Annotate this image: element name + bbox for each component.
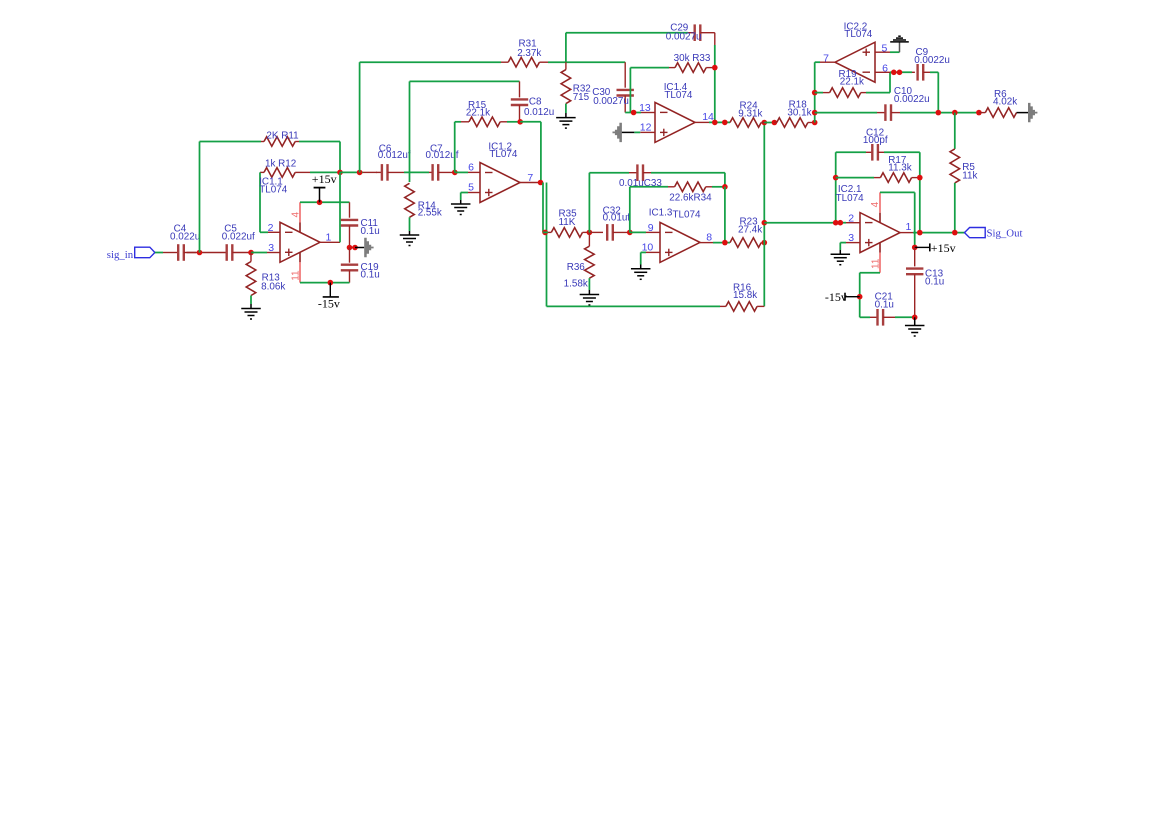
capacitor C33 feedback	[589, 172, 629, 174]
junction R24/R18 b	[772, 120, 778, 126]
svg-text:13: 13	[639, 102, 651, 114]
junction node F (R36/C33 tap)	[587, 230, 593, 236]
svg-text:+15v: +15v	[931, 241, 956, 255]
svg-text:11: 11	[291, 270, 302, 281]
ground below R14	[409, 231, 411, 235]
svg-text:4.02k: 4.02k	[993, 96, 1017, 107]
resistor R11 (2K) feedback	[200, 141, 262, 143]
wire R34 left down to node G	[629, 187, 631, 233]
svg-text:11: 11	[870, 258, 881, 269]
capacitor C9	[912, 71, 915, 73]
capacitor C30	[624, 62, 626, 87]
wire C6 to C7 across R14 tap	[404, 171, 429, 173]
wire R12 left down to pin 2 of IC1.1	[259, 172, 261, 232]
junction node D (R31 tap)	[357, 170, 363, 176]
wire node A up to R11	[199, 142, 201, 253]
svg-text:-15v: -15v	[318, 296, 340, 310]
junction pin 13	[631, 110, 637, 116]
op-amp IC1.2 TL074	[480, 163, 520, 203]
op-amp IC2.1 TL074	[860, 213, 900, 253]
resistor R6	[979, 112, 985, 114]
pin 4 power stub IC1.1	[299, 223, 301, 233]
pin 6 wire IC2.2	[875, 71, 890, 73]
resistor R34 feedback	[630, 186, 668, 188]
junction R35 line left	[542, 230, 548, 236]
wire node D up to R31	[359, 62, 361, 172]
junction pin 14	[712, 120, 718, 126]
resistor R14	[405, 183, 415, 217]
long vertical node H (R23/R16/pin2/R24-R18)	[763, 123, 765, 307]
+15v supply rail wire	[300, 201, 350, 203]
ground below pin 10 IC1.3	[640, 265, 642, 269]
junction output feedback	[917, 230, 923, 236]
svg-text:27.4k: 27.4k	[738, 225, 762, 236]
wire R15 left down to node E	[454, 122, 456, 173]
junction node G (R34 tap)	[627, 230, 633, 236]
wire C12 left down to pin 2 node	[835, 152, 837, 222]
resistor R13	[250, 253, 252, 262]
svg-text:0.1u: 0.1u	[925, 276, 944, 287]
junction R33/C29 vertical	[712, 65, 718, 71]
wire pin 13 line	[625, 112, 641, 114]
junction node C (R11/R12/output)	[337, 170, 343, 176]
svg-text:sig_in: sig_in	[107, 249, 134, 261]
wire node G to pin 9 of IC1.3	[630, 231, 646, 233]
ground below R32	[565, 113, 567, 118]
svg-text:2.37k: 2.37k	[517, 48, 541, 59]
main wire node C to C6	[340, 171, 363, 173]
ground below R36	[588, 290, 590, 295]
junction dots at C11/C19 node	[347, 245, 353, 251]
wire down to pin 8 line	[724, 187, 726, 243]
svg-text:3: 3	[268, 242, 274, 254]
wire C9 right down to C10 line	[937, 72, 939, 112]
svg-text:100pf: 100pf	[863, 135, 888, 146]
op-amp IC1.3 TL074	[660, 222, 700, 262]
-15v supply rail wire	[300, 282, 350, 284]
capacitor C19	[349, 248, 351, 263]
capacitor C12 line	[836, 151, 866, 153]
pin 11 power stub IC1.1	[299, 252, 301, 262]
output port Sig_Out	[965, 228, 986, 238]
svg-text:8: 8	[706, 231, 712, 243]
svg-text:4: 4	[870, 201, 881, 207]
junction pin 7 node	[538, 180, 544, 186]
svg-text:6: 6	[468, 161, 474, 173]
wire node E to pin 6 of IC1.2	[455, 171, 468, 173]
junction node E (R15 tap / pin 6)	[452, 170, 458, 176]
junction before R6	[976, 110, 982, 116]
svg-text:TL074: TL074	[664, 90, 693, 101]
svg-text:11K: 11K	[559, 217, 576, 228]
resistor R5	[954, 113, 956, 149]
op-amp IC1.1 TL074	[280, 222, 320, 262]
pin 3 wire to ground	[846, 242, 860, 244]
svg-text:22.1k: 22.1k	[466, 107, 490, 118]
wire C8 top line	[410, 80, 520, 82]
capacitor C8	[519, 81, 521, 97]
junction C13/C21 ground	[912, 315, 918, 321]
svg-text:0.012uf: 0.012uf	[426, 150, 459, 161]
resistor R17 feedback	[836, 177, 874, 179]
wire C12 right down to output	[919, 152, 921, 232]
svg-text:TL074: TL074	[259, 185, 288, 196]
vertical IC2.2 output net	[814, 62, 816, 122]
svg-text:8.06k: 8.06k	[261, 282, 285, 293]
IC1.2 output pin 7 wire	[520, 182, 543, 184]
junction node A	[197, 250, 203, 256]
wire node B to pin 3 of IC1.1	[251, 252, 267, 254]
capacitor C12	[872, 144, 878, 161]
resistor R18	[774, 122, 776, 124]
svg-text:12: 12	[640, 121, 652, 133]
junction pin 2 dots	[833, 220, 839, 226]
resistor R15 feedback	[455, 121, 461, 123]
wire pin 11 to C21	[860, 272, 880, 274]
svg-text:1: 1	[906, 221, 912, 233]
svg-text:Sig_Out: Sig_Out	[987, 227, 1023, 239]
svg-text:15.8k: 15.8k	[733, 290, 757, 301]
svg-text:0.012u: 0.012u	[524, 107, 554, 118]
svg-text:R36: R36	[567, 262, 586, 273]
IC1.3 output pin 8 wire	[700, 242, 713, 244]
svg-text:TL074: TL074	[836, 193, 865, 204]
capacitor C13	[914, 247, 916, 266]
+15v supply symbol right	[912, 245, 918, 251]
capacitor C10 line	[815, 112, 877, 114]
svg-text:0.01uf: 0.01uf	[603, 213, 631, 224]
svg-text:1k R12: 1k R12	[265, 158, 296, 169]
svg-text:IC1.3: IC1.3	[649, 208, 673, 219]
capacitor C10	[885, 104, 891, 121]
svg-text:-15v: -15v	[825, 290, 847, 304]
svg-text:715: 715	[573, 92, 590, 103]
junction R19 left	[812, 90, 818, 96]
wire R14 vertical from C8 line down through main line	[409, 81, 411, 182]
pin 4 power stub IC2.1	[879, 213, 881, 223]
op-amp IC1.4 TL074	[655, 102, 695, 142]
resistor R12 (1k)	[260, 171, 264, 173]
junction pin 6 dots	[891, 70, 897, 76]
svg-text:0.0022u: 0.0022u	[894, 94, 930, 105]
junction R15/C8	[517, 119, 523, 125]
svg-text:0.1u: 0.1u	[361, 226, 380, 237]
svg-text:TL074: TL074	[844, 29, 873, 40]
junction pin 14 b	[722, 120, 728, 126]
capacitor C29 line	[566, 32, 688, 34]
svg-text:22.6kR34: 22.6kR34	[669, 192, 712, 203]
wire pin 4 to +15v	[880, 191, 915, 193]
capacitor C5	[227, 244, 233, 261]
svg-text:0.1u: 0.1u	[361, 269, 380, 280]
resistor R31	[360, 61, 501, 63]
op-amp IC2.2 TL074 (mirrored)	[835, 42, 875, 82]
resistor R32	[565, 62, 567, 69]
junction C9 branch	[936, 110, 942, 116]
svg-text:11k: 11k	[962, 170, 977, 181]
capacitor C32	[589, 231, 603, 233]
svg-text:11.3k: 11.3k	[888, 162, 911, 173]
analog ground arrow (C11/C19 node)	[355, 247, 364, 249]
junction pin8/R34	[722, 240, 728, 246]
resistor R35	[543, 231, 548, 233]
svg-text:9: 9	[648, 222, 654, 234]
svg-text:0.0027u: 0.0027u	[593, 96, 629, 107]
resistor R23	[730, 238, 761, 248]
analog ground arrow after R6	[1017, 112, 1029, 114]
pin 11 power stub IC2.1	[879, 243, 881, 253]
capacitor C29	[695, 24, 701, 41]
capacitor C21	[878, 309, 884, 326]
junction R18 right	[812, 120, 818, 126]
capacitor C6	[376, 171, 382, 173]
junction pin2 line	[762, 220, 768, 226]
wire node F up to C33 line	[588, 173, 590, 233]
wire R19 right up to pin 6	[889, 72, 891, 92]
svg-text:5: 5	[468, 182, 474, 194]
junction C10 line left	[812, 110, 818, 116]
resistor R19 feedback	[815, 92, 823, 94]
capacitor C7	[429, 171, 433, 173]
inverted earth ground above pin 5	[899, 42, 901, 52]
svg-text:0.012uf: 0.012uf	[378, 150, 411, 161]
ground below pin 5 IC1.2	[460, 200, 462, 204]
svg-text:TL074: TL074	[673, 209, 702, 220]
svg-text:C8: C8	[529, 96, 542, 107]
wire C4 to C5, node A	[187, 252, 227, 254]
wire sig_in to C4	[155, 252, 163, 254]
resistor R24	[730, 118, 761, 128]
svg-text:14: 14	[702, 111, 714, 123]
svg-text:2.55k: 2.55k	[418, 208, 442, 219]
-15v supply symbol right	[857, 294, 863, 300]
svg-text:0.1u: 0.1u	[875, 300, 894, 311]
pin 5 wire to inverted ground	[875, 51, 890, 53]
svg-text:22.1k: 22.1k	[840, 77, 864, 88]
svg-text:0.0027u: 0.0027u	[666, 31, 702, 42]
svg-text:2K R11: 2K R11	[266, 130, 299, 141]
svg-text:30k R33: 30k R33	[674, 53, 711, 64]
wire R15/C8 junction to pin 7 node	[520, 121, 541, 123]
input port sig_in	[135, 247, 155, 258]
capacitor C21 line	[860, 316, 870, 318]
wire R31 right to C30 corner	[566, 61, 625, 63]
svg-text:2: 2	[848, 212, 854, 224]
wire C29 branch up	[565, 33, 567, 63]
pin 10 wire to ground	[646, 251, 660, 253]
ground below R13	[250, 304, 252, 309]
analog ground arrow at pin 12	[613, 123, 622, 142]
svg-text:4: 4	[291, 212, 302, 218]
+15v supply symbol	[317, 200, 323, 206]
svg-text:2: 2	[268, 222, 274, 234]
resistor R36	[588, 232, 590, 246]
ground below C13/C21	[914, 317, 916, 325]
svg-text:TL074: TL074	[489, 149, 518, 160]
junction R17 left	[833, 175, 839, 181]
pin 7 output wire IC2.2	[820, 61, 835, 63]
wire C33 right down	[724, 173, 726, 187]
junction R23 right	[762, 240, 768, 246]
wire C29 right down to pin 14 node	[714, 33, 716, 45]
resistor R33 feedback	[630, 67, 669, 69]
pin 12 wire to analog ground arrow	[640, 131, 655, 133]
svg-text:0.0022u: 0.0022u	[914, 55, 950, 66]
wire pin 2 line IC2.1	[764, 222, 832, 224]
svg-text:+15v: +15v	[312, 172, 337, 186]
junction node H top	[762, 120, 768, 126]
wire R24 to R18	[764, 122, 774, 124]
pin 5 wire to ground	[468, 192, 480, 194]
wire IC1.1 output pin 1 to node C	[320, 241, 340, 243]
-15v supply symbol	[328, 280, 334, 286]
svg-text:30.1k: 30.1k	[787, 108, 811, 119]
capacitor C4	[178, 244, 184, 261]
svg-text:9.31k: 9.31k	[738, 108, 762, 119]
resistor R16 feedback	[547, 305, 721, 307]
junction R17 right	[917, 175, 923, 181]
capacitor C11	[349, 202, 351, 217]
IC1.4 output pin 14 wire	[695, 121, 709, 123]
wire R33 left down to pin 13	[629, 68, 631, 113]
mid node wire to analog-ground arrow	[350, 247, 357, 249]
junction R5 branch	[952, 110, 958, 116]
svg-text:1.58k: 1.58k	[564, 279, 588, 290]
svg-text:0.022uf: 0.022uf	[222, 232, 255, 243]
IC2.1 output pin 1 wire	[900, 232, 913, 234]
svg-text:0.022u: 0.022u	[170, 232, 200, 243]
wire pin7 down to R16 line	[546, 183, 548, 307]
wire R11 right down to node C	[339, 142, 341, 173]
junction R34/C33 right	[722, 184, 728, 190]
wire pin7 down to R35 line	[542, 183, 544, 233]
junction output R5	[952, 230, 958, 236]
junction node B (C5/R13/pin3)	[248, 250, 254, 256]
ground below pin 3 IC2.1	[839, 250, 841, 254]
